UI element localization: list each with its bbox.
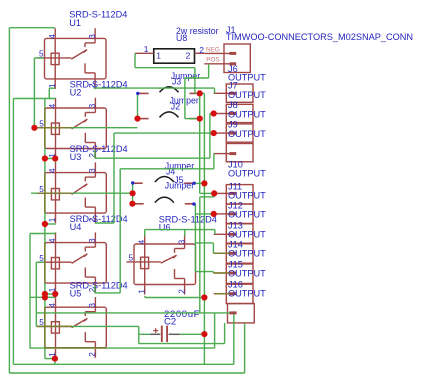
label U1: [69, 10, 127, 28]
svg-text:2: 2: [186, 50, 191, 60]
svg-text:4: 4: [48, 303, 57, 308]
label J3: [171, 71, 200, 87]
wire U1 pin1 drop: [48, 88, 50, 98]
wire cap left: [139, 333, 150, 335]
wire drop to H1: [138, 326, 140, 343]
wire overlap U5 left edge (olive): [44, 307, 46, 347]
connector J11: [214, 185, 253, 204]
wire bottom outer riser: [244, 323, 246, 373]
wire POS down to J2: [184, 78, 186, 119]
label J11: [228, 181, 266, 200]
wire U6 pin1 run: [145, 297, 205, 299]
svg-text:OUTPUT: OUTPUT: [228, 210, 266, 220]
svg-text:3: 3: [88, 238, 97, 243]
svg-text:2: 2: [177, 289, 186, 294]
svg-text:4: 4: [48, 103, 57, 108]
label J14: [228, 240, 266, 259]
wire U3 pin1 link: [45, 223, 56, 225]
label U5: [70, 281, 128, 299]
pin name POS: [206, 56, 220, 63]
svg-text:5: 5: [39, 254, 44, 263]
junction at (55.2,158.5): [52, 155, 58, 161]
pin name NEG: [206, 47, 220, 54]
wire U1 pin2 to J7 run: [94, 87, 215, 89]
label C2: [164, 309, 200, 328]
svg-text:OUTPUT: OUTPUT: [228, 289, 266, 299]
svg-text:5: 5: [39, 50, 44, 59]
wire U6 pin4 stub: [144, 230, 146, 236]
wire J11 jog: [200, 196, 214, 198]
wire overlap U5 pin5 (olive): [37, 325, 72, 327]
relay U5 (SRD-S-112D4): [37, 297, 106, 358]
wire overlap U3 pin5 (olive): [37, 192, 71, 194]
junction at (55.2,294.0): [52, 291, 58, 297]
wire bottom outer horizontal: [9, 372, 244, 374]
wire overlap U3 left edge (olive): [44, 173, 46, 213]
junction at (204.4,334.1): [201, 331, 207, 337]
label U3: [70, 144, 128, 162]
wire pin5 bus lower: [35, 262, 37, 326]
wire U3 pin2 to J9: [95, 222, 114, 224]
svg-text:C2: C2: [164, 317, 176, 328]
wire J13 drop: [214, 230, 216, 235]
svg-text:POS: POS: [206, 56, 220, 63]
svg-text:OUTPUT: OUTPUT: [228, 110, 266, 120]
wire to J12 dot: [195, 213, 213, 215]
junction at (213.7,213.9): [211, 211, 217, 217]
wire U5 pin1 drop: [54, 359, 56, 365]
pin number 2 (J1): [199, 45, 204, 55]
pin end marker at (193.9,204.0): [192, 202, 195, 205]
svg-text:1: 1: [48, 217, 57, 222]
svg-text:NEG: NEG: [206, 47, 220, 54]
svg-text:J9: J9: [228, 120, 238, 130]
wire U4 pin5 stub: [36, 261, 44, 263]
svg-text:OUTPUT: OUTPUT: [228, 90, 266, 100]
junction at (204.4,183.4): [201, 180, 207, 186]
wire J10 drop: [213, 154, 215, 169]
svg-text:1: 1: [137, 289, 146, 294]
svg-text:Jumper: Jumper: [165, 181, 194, 191]
svg-text:OUTPUT: OUTPUT: [228, 230, 266, 240]
wire J7 drop: [214, 88, 216, 93]
connector J13: [214, 224, 253, 243]
svg-text:OUTPUT: OUTPUT: [228, 129, 266, 139]
junction at (204.4,297.5): [201, 294, 207, 300]
label J16: [228, 280, 266, 299]
relay U1 (SRD-S-112D4): [37, 28, 106, 89]
connector J14: [214, 244, 253, 263]
svg-text:4: 4: [137, 239, 146, 244]
wire U4 pin2 drop: [94, 285, 96, 293]
wire U2 pin2 to J8 run: [95, 157, 210, 159]
pin numbers U8: [144, 44, 191, 61]
label J12: [228, 201, 266, 220]
wire U1 pin4 net top: [9, 27, 55, 29]
svg-text:U1: U1: [69, 18, 81, 28]
wire J8 dot link: [210, 113, 214, 115]
wire J11 dot drop: [213, 193, 215, 197]
connector (bottom, unlabeled): [228, 304, 255, 323]
connector J16: [214, 284, 253, 303]
label J15: [228, 260, 266, 279]
label U4: [70, 214, 128, 232]
junction at (213.7,113.5): [211, 110, 217, 116]
wire J14 run: [195, 242, 213, 244]
label J5: [165, 175, 194, 190]
pin end marker at (132.7,183.0): [131, 181, 134, 184]
wire over J16 pin (olive): [215, 293, 230, 295]
wire along U3 left edge: [44, 159, 46, 225]
wire J3 dot link: [196, 92, 204, 94]
relay U6 (SRD-S-112D4): [126, 234, 195, 295]
wire resistor pin1 run: [135, 67, 195, 69]
wire H1 run: [139, 343, 225, 345]
svg-text:OUTPUT: OUTPUT: [228, 169, 266, 179]
wire bus B: [203, 93, 205, 364]
junction at (199.7,118.6): [197, 116, 203, 122]
label J10: [228, 160, 266, 179]
wire U5 bottom edge long run: [30, 347, 215, 349]
svg-text:OUTPUT: OUTPUT: [228, 249, 266, 259]
jumper J2: [140, 112, 196, 119]
wire to J2 right dot: [185, 118, 200, 120]
wire overlap U5 bottom edge (olive): [45, 347, 107, 349]
svg-text:3: 3: [88, 303, 97, 308]
relay U4 (SRD-S-112D4): [37, 232, 106, 293]
junction at (54.9,358.6): [52, 356, 58, 362]
wire over J15 pin (olive): [213, 272, 229, 274]
wire resistor pin1 drop: [134, 53, 136, 67]
svg-text:2: 2: [199, 45, 204, 55]
wire U1 pin5 stub: [34, 57, 44, 59]
svg-text:5: 5: [128, 254, 133, 263]
svg-text:3: 3: [88, 103, 97, 108]
wire U2 pin2 drop: [94, 150, 96, 158]
wire along U2 left edge: [44, 99, 46, 159]
wire to J11 dot: [200, 192, 215, 194]
wire J15 drop: [212, 272, 214, 273]
wire U5 pin4 feed: [30, 296, 56, 298]
wire U4 pin4 feed: [30, 233, 56, 235]
wire over J14 pin (olive): [213, 252, 229, 254]
wire resistor to J3 right: [194, 68, 196, 94]
label J13: [228, 221, 266, 240]
wire pad riser: [233, 314, 235, 364]
connector J7: [214, 84, 253, 102]
wire U2 pin1 link: [45, 158, 56, 160]
wire J15 run: [195, 271, 213, 273]
svg-text:J2: J2: [171, 101, 180, 111]
junction at (137.5,118.6): [134, 116, 140, 122]
wire x30 vertical: [29, 234, 31, 349]
label J4: [165, 161, 194, 177]
junction at (34.4,127.8): [31, 125, 37, 131]
junction at (44.9,294.0): [42, 291, 48, 297]
wire left inner vertical: [12, 99, 14, 365]
wire J3 left to J2 left: [137, 93, 139, 118]
svg-text:U4: U4: [70, 222, 82, 232]
junction at (214.2,193.4): [211, 190, 217, 196]
junction at (132.6,193.3): [130, 190, 136, 196]
svg-text:3: 3: [88, 34, 97, 39]
wire U5 pin5 long run: [36, 325, 139, 327]
jumper J3: [139, 87, 197, 94]
wire overlap U2 left edge (olive): [44, 108, 46, 148]
svg-text:4: 4: [48, 34, 57, 39]
label J6: [228, 64, 266, 83]
junction at (132.4,203.7): [129, 201, 135, 207]
svg-text:1: 1: [144, 44, 149, 54]
wire J10 run: [120, 168, 214, 170]
junction at (44.9,224.0): [42, 221, 48, 227]
wire J4-J5 left riser: [132, 183, 134, 204]
junction at (199.7,93.4): [197, 90, 203, 96]
wire pin5 bus upper: [33, 58, 35, 128]
label J9: [228, 120, 266, 140]
pin end marker at (194.1,183.2): [192, 182, 195, 185]
svg-text:U2: U2: [70, 87, 82, 97]
svg-text:2: 2: [88, 352, 97, 357]
connector J10: [214, 144, 253, 162]
capacitor C2 (2200uF): [150, 326, 180, 343]
junction at (44.9,297.4): [42, 294, 48, 300]
junction at (213.7,133.1): [211, 130, 217, 136]
svg-text:U8: U8: [176, 33, 187, 43]
wire J14 drop: [212, 243, 214, 253]
wire J10 riser: [119, 169, 121, 293]
svg-text:TIMWOO-CONNECTORS_M02SNAP_CONN: TIMWOO-CONNECTORS_M02SNAP_CONN: [226, 32, 413, 42]
svg-text:1: 1: [156, 50, 161, 60]
wire J5 right drop to J12/J14/J15: [194, 204, 196, 272]
resistor U8 (2w resistor): [135, 49, 204, 63]
label U8: [176, 26, 219, 43]
wire U6 pin3 stub: [184, 230, 186, 236]
svg-text:OUTPUT: OUTPUT: [228, 190, 266, 200]
svg-text:4: 4: [48, 238, 57, 243]
jumper J5: [134, 197, 194, 204]
wire bus C: [199, 197, 201, 313]
wire along U4-U5 left edges: [44, 224, 46, 359]
wire U6 pin1 stub: [144, 296, 146, 298]
svg-text:3: 3: [88, 168, 97, 173]
wire U4 pin1 link: [45, 293, 56, 295]
connector J8: [214, 104, 253, 122]
wire bottom inner horizontal: [13, 363, 233, 365]
junction at (44.9,158.5): [42, 155, 48, 161]
wire U2 pin4 net top: [13, 98, 55, 100]
svg-text:3: 3: [177, 239, 186, 244]
wire bottom box run: [36, 312, 229, 314]
wire U1 pin1 jog: [49, 87, 55, 89]
wire U2 pin5 to J2 left: [34, 127, 137, 129]
label J1: [226, 25, 413, 42]
wire left outer vertical: [8, 28, 10, 373]
wire U3 pin5 run: [31, 192, 133, 194]
wire J9 drop: [113, 133, 115, 223]
connector J9: [214, 124, 253, 142]
wire U5 pin1 link: [45, 358, 56, 360]
wire J4 right link: [194, 182, 204, 184]
svg-text:1: 1: [48, 83, 57, 88]
svg-text:4: 4: [48, 168, 57, 173]
svg-text:U5: U5: [70, 289, 82, 299]
label J8: [228, 100, 266, 119]
wire to U3 pin4: [55, 159, 57, 163]
label U6: [159, 215, 217, 233]
wire J8 riser: [209, 114, 211, 159]
wire overlap U4 left edge (olive): [44, 243, 46, 283]
svg-text:J3: J3: [172, 77, 181, 87]
wire bottom box pin riser: [214, 313, 216, 348]
wire box-to-H1 riser: [224, 323, 226, 344]
connector J12: [214, 204, 253, 223]
wire POS drop: [208, 64, 210, 78]
label J7: [228, 81, 266, 100]
wire U4 pin2 jog: [95, 292, 120, 294]
wire J9 run: [114, 132, 214, 134]
label U2: [70, 79, 128, 97]
relay U2 (SRD-S-112D4): [37, 98, 106, 159]
wire overlap U2 pin5 (olive): [37, 127, 71, 129]
relay U3 (SRD-S-112D4): [37, 162, 106, 223]
wire cap right: [180, 333, 205, 335]
svg-text:U3: U3: [70, 152, 82, 162]
wire POS run left: [185, 77, 209, 79]
wire J13 run: [145, 229, 215, 231]
connector J1: [204, 44, 250, 73]
wire bus A (J3-J2-J11): [199, 93, 201, 193]
connector J15: [214, 264, 253, 283]
pin end marker at (137.8,93.4): [136, 92, 139, 95]
svg-text:OUTPUT: OUTPUT: [228, 269, 266, 279]
svg-text:OUTPUT: OUTPUT: [228, 73, 266, 83]
svg-text:U6: U6: [159, 223, 171, 233]
label J2: [170, 95, 199, 111]
jumper J4: [133, 177, 193, 184]
